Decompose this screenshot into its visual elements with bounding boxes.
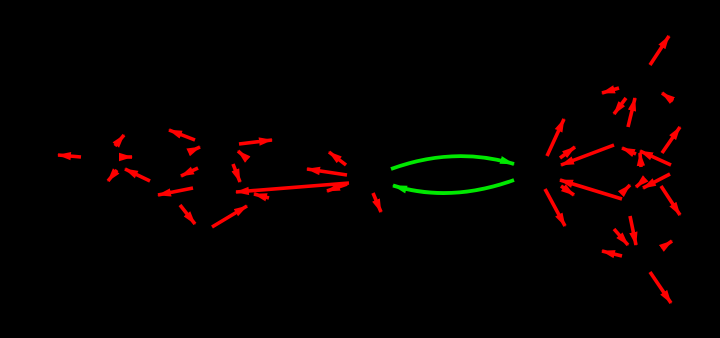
wire edge A3 — [119, 155, 132, 159]
wire edge A42b — [636, 179, 645, 187]
wire edge A16 — [254, 194, 269, 198]
wire edge A13 — [180, 205, 195, 224]
wire edge A33 — [662, 93, 673, 101]
wire edge A23 — [561, 145, 614, 165]
wire edge A38 — [614, 229, 628, 245]
wire edge A11 — [233, 164, 240, 182]
wire edge A28 — [545, 189, 565, 226]
wire edge A6 — [169, 130, 195, 140]
wire edge A9 — [238, 151, 246, 158]
wire edge A37 — [630, 216, 636, 245]
wire edge A35 — [622, 148, 636, 154]
wire edge A32 — [628, 98, 635, 127]
wire edge A20 — [373, 193, 381, 212]
wire edge A14 — [212, 206, 247, 227]
wire edge A22 — [560, 147, 575, 158]
wire edge A31 — [614, 98, 626, 114]
wire green edge bottom arc — [393, 180, 514, 193]
wire edge A42 — [643, 174, 670, 188]
wire edge A36 — [640, 151, 671, 165]
wire edge A29 — [650, 36, 669, 65]
wire edge A1 — [58, 155, 81, 157]
wire edge A26 — [560, 180, 622, 199]
wire edge A27 — [561, 186, 574, 195]
wire edge A12 — [158, 188, 193, 195]
wire edge A45 — [650, 272, 671, 303]
wire edge A17 — [329, 152, 346, 165]
wire edge A34 — [662, 127, 680, 153]
wire edge A7 — [189, 147, 200, 152]
wire edge A8 — [239, 140, 272, 144]
wire edge A36b — [640, 153, 641, 167]
wire green edge top arc — [391, 156, 514, 169]
wire edge A39 — [661, 186, 680, 215]
wire edge A43 — [602, 251, 622, 256]
wire edge A10 — [181, 168, 198, 176]
wire edge A5 — [125, 169, 150, 181]
wire edge A30 — [602, 88, 619, 93]
wire edge A44 — [662, 241, 672, 248]
wire edge A21 — [547, 119, 564, 156]
wire edge A46 — [621, 185, 630, 194]
wire edge A15 — [236, 183, 349, 192]
wire edge A19 — [327, 184, 347, 191]
wire edge A2 — [115, 135, 124, 146]
wire edge A4 — [108, 170, 117, 181]
wire edge A18 — [307, 169, 347, 175]
